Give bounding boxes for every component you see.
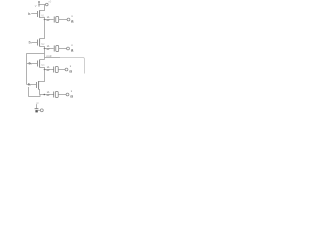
svg-text:x: x: [71, 14, 73, 18]
capacitor C4: [54, 92, 59, 98]
svg-text:a: a: [71, 49, 74, 54]
wire n2 down: [44, 49, 46, 60]
svg-text:a: a: [70, 95, 73, 100]
port P2 circle: [67, 47, 70, 50]
battery B1: [35, 104, 39, 112]
svg-text:a: a: [71, 20, 74, 25]
svg-text:a: a: [69, 70, 72, 75]
transistor Q2: [38, 39, 40, 47]
wire source Q4: [39, 90, 54, 95]
wire gate Q4: [27, 84, 37, 86]
transistor Q1: [38, 10, 40, 18]
wire gate Q1: [31, 13, 37, 15]
port P4 circle: [66, 93, 69, 96]
wire feedback loop: [29, 87, 40, 97]
junction node n4: [44, 94, 46, 96]
wire drain Q3: [40, 59, 45, 61]
wire C3 to port: [58, 69, 65, 71]
transistor Q3: [38, 60, 40, 68]
wire C1 to port: [59, 19, 67, 21]
svg-text:x: x: [70, 64, 72, 68]
wire gate Q2: [31, 42, 37, 44]
svg-text:x: x: [71, 43, 73, 47]
wire source Q3: [40, 68, 54, 70]
transistor Q4: [37, 81, 39, 90]
wire branch right fade: [60, 58, 84, 74]
port P1 circle: [67, 18, 70, 21]
svg-text:b.: b.: [29, 41, 32, 45]
port P3 circle: [65, 68, 68, 71]
wire gate Q3: [27, 63, 38, 65]
wire C4 to port: [58, 94, 66, 96]
svg-text:nn3: nn3: [46, 54, 51, 58]
wire n1 to drain Q2: [40, 20, 45, 39]
capacitor C2: [54, 46, 59, 52]
svg-text:M3: M3: [41, 64, 45, 67]
wire source Q2: [40, 47, 54, 49]
wire C2 to port: [59, 48, 67, 50]
wire branch left: [27, 54, 45, 85]
wire drain Q1: [40, 5, 45, 11]
svg-text:g0: g0: [36, 102, 39, 105]
svg-text:V: V: [35, 4, 37, 8]
svg-text:b.: b.: [28, 12, 31, 16]
capacitor C1: [54, 17, 59, 23]
svg-text:b.: b.: [29, 62, 32, 66]
power symbol V+ top: [38, 1, 40, 7]
svg-text:x: x: [71, 89, 73, 93]
svg-text:b.: b.: [28, 83, 31, 87]
svg-text:o0: o0: [48, 0, 51, 4]
wire B1 to port: [38, 109, 41, 111]
wire top net: [39, 4, 45, 6]
wire n3 to drain Q4: [39, 70, 45, 82]
svg-text:M1: M1: [41, 14, 45, 17]
svg-text:M2: M2: [41, 43, 45, 46]
junction node n2: [44, 48, 46, 50]
wire branch right: [45, 57, 61, 59]
junction node n1: [44, 19, 46, 21]
wire source Q1: [40, 18, 54, 20]
port P5 circle: [40, 109, 43, 112]
capacitor C3: [54, 67, 59, 73]
junction node n3: [44, 69, 46, 71]
port P0 circle: [46, 3, 49, 6]
